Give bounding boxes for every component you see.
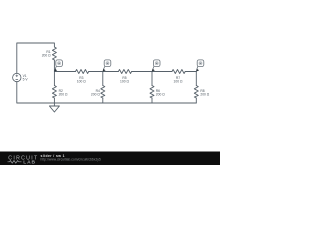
svg-text:5 V: 5 V (23, 78, 29, 82)
svg-text:100 Ω: 100 Ω (120, 80, 129, 84)
svg-text:200 Ω: 200 Ω (91, 92, 100, 96)
svg-text:200 Ω: 200 Ω (200, 92, 209, 96)
svg-text:LAB: LAB (23, 160, 36, 166)
svg-text:200 Ω: 200 Ω (42, 54, 51, 58)
svg-text:100 Ω: 100 Ω (174, 80, 183, 84)
svg-text:100 Ω: 100 Ω (77, 80, 86, 84)
svg-text:200 Ω: 200 Ω (156, 92, 165, 96)
svg-text:http://www.circuitlab.com/circ: http://www.circuitlab.com/circuit/c66x2y… (41, 158, 101, 162)
svg-text:200 Ω: 200 Ω (59, 92, 68, 96)
